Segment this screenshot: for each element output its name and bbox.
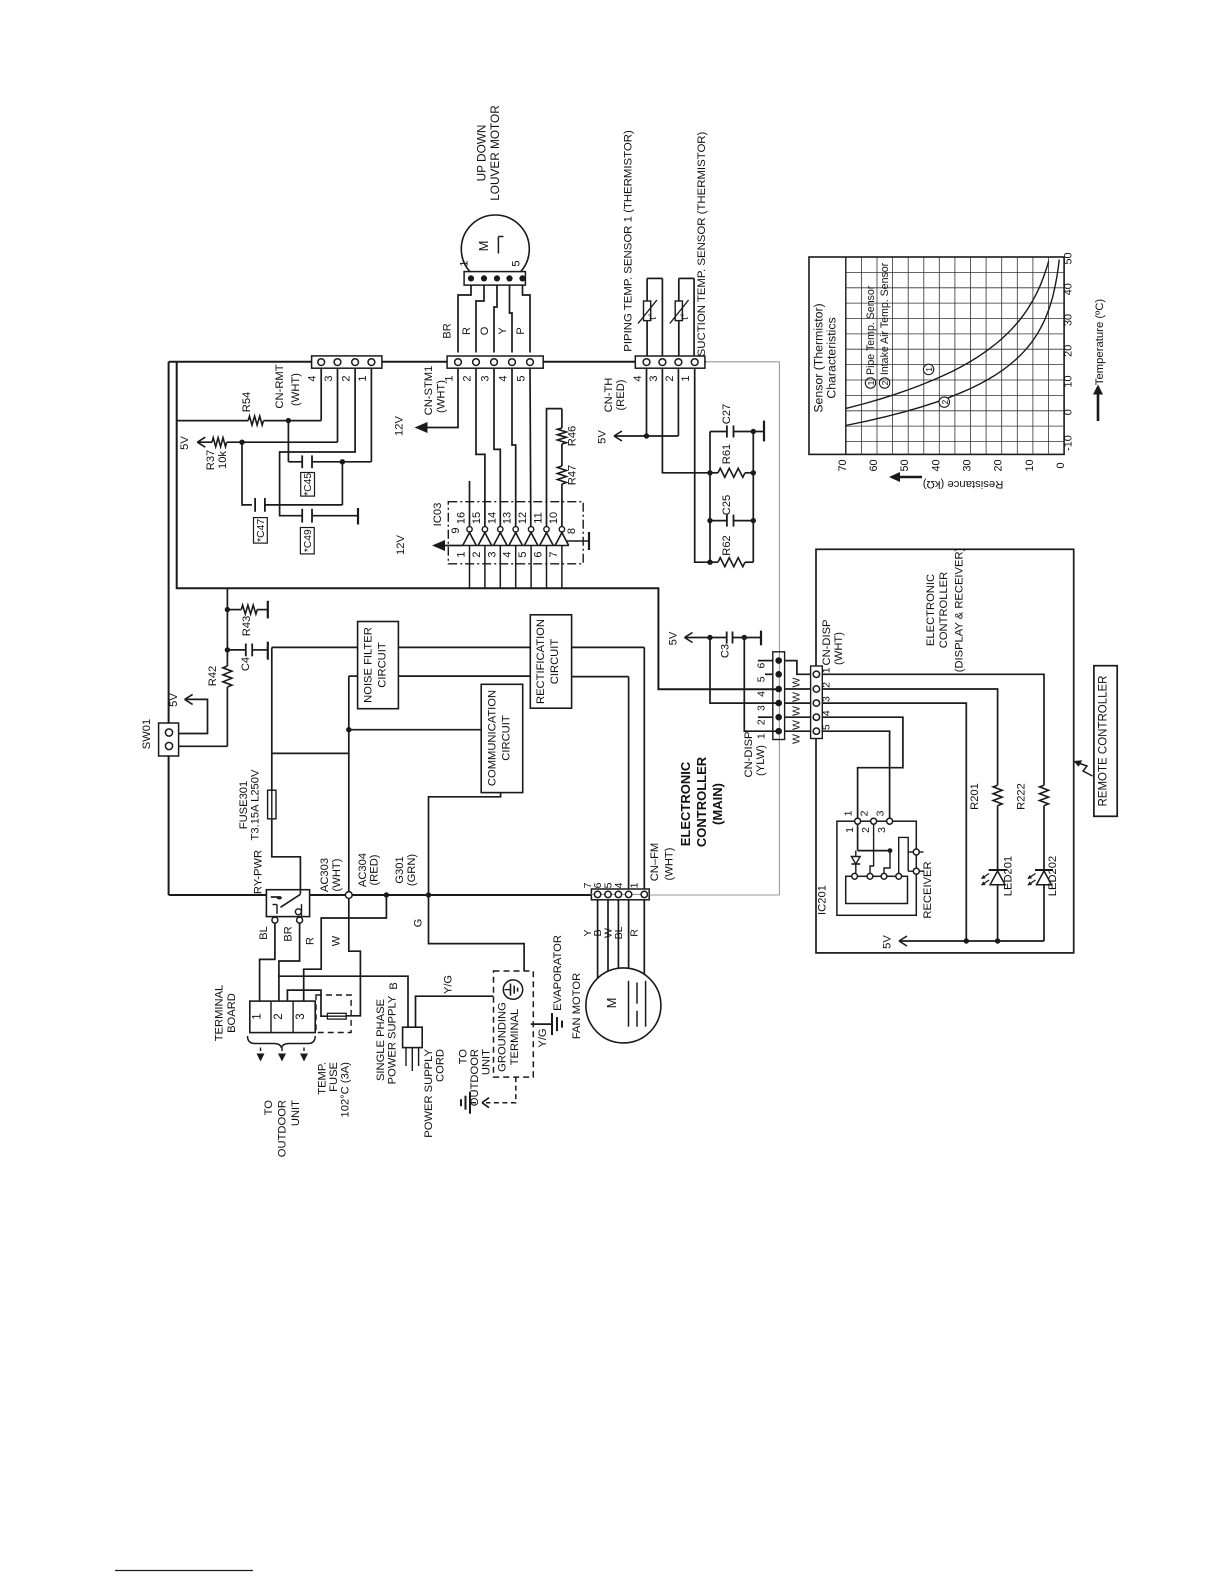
svg-text:9: 9 xyxy=(450,527,462,533)
svg-text:BL: BL xyxy=(258,926,270,939)
svg-text:Characteristics: Characteristics xyxy=(825,317,839,398)
svg-text:14: 14 xyxy=(486,512,498,524)
svg-text:CN-DISP: CN-DISP xyxy=(743,732,755,778)
svg-text:NOISE FILTER: NOISE FILTER xyxy=(363,627,375,703)
svg-text:Y/G: Y/G xyxy=(537,1028,549,1047)
svg-text:*C49: *C49 xyxy=(303,529,314,552)
svg-text:SW01: SW01 xyxy=(141,719,153,749)
svg-text:2: 2 xyxy=(860,827,872,833)
svg-text:1: 1 xyxy=(629,882,641,888)
svg-text:W: W xyxy=(791,677,803,687)
svg-text:G301: G301 xyxy=(394,856,406,883)
svg-text:(WHT): (WHT) xyxy=(331,858,343,891)
svg-text:0: 0 xyxy=(1055,462,1067,468)
svg-text:0: 0 xyxy=(1063,409,1075,415)
svg-text:FUSE301: FUSE301 xyxy=(238,781,250,830)
svg-text:5: 5 xyxy=(821,724,833,730)
svg-text:RECEIVER: RECEIVER xyxy=(922,861,934,918)
svg-text:CIRCUIT: CIRCUIT xyxy=(501,715,513,761)
svg-text:1: 1 xyxy=(459,260,471,266)
svg-text:3: 3 xyxy=(480,375,492,381)
svg-text:3: 3 xyxy=(821,696,833,702)
svg-text:UNIT: UNIT xyxy=(290,1100,302,1126)
svg-text:1: 1 xyxy=(357,375,369,381)
svg-text:R61: R61 xyxy=(721,444,733,465)
svg-text:4: 4 xyxy=(502,551,514,557)
svg-text:1: 1 xyxy=(866,380,876,385)
svg-text:5V: 5V xyxy=(668,631,680,645)
svg-text:R37: R37 xyxy=(205,450,217,471)
svg-text:(WHT): (WHT) xyxy=(290,373,302,406)
svg-text:SUCTION TEMP. SENSOR (THERMIST: SUCTION TEMP. SENSOR (THERMISTOR) xyxy=(696,131,708,356)
svg-text:CN-RMT: CN-RMT xyxy=(274,364,286,408)
svg-text:(WHT): (WHT) xyxy=(833,632,845,665)
svg-text:(RED): (RED) xyxy=(369,854,381,885)
svg-text:CONTROLLER: CONTROLLER xyxy=(938,572,950,648)
svg-text:4: 4 xyxy=(821,710,833,716)
svg-text:RY-PWR: RY-PWR xyxy=(253,850,265,894)
svg-text:2: 2 xyxy=(940,399,950,404)
svg-text:*C45: *C45 xyxy=(303,473,314,496)
svg-text:AC304: AC304 xyxy=(357,853,369,887)
svg-text:10: 10 xyxy=(1063,375,1075,387)
svg-text:2: 2 xyxy=(273,1013,285,1019)
svg-text:10: 10 xyxy=(548,512,560,524)
svg-text:R46: R46 xyxy=(567,426,579,447)
svg-text:ELECTRONIC: ELECTRONIC xyxy=(925,574,937,646)
svg-text:FAN MOTOR: FAN MOTOR xyxy=(571,973,583,1039)
svg-text:6: 6 xyxy=(533,551,545,557)
svg-text:20: 20 xyxy=(993,459,1005,471)
svg-text:5: 5 xyxy=(756,676,768,682)
svg-text:W: W xyxy=(791,720,803,730)
svg-text:CN-TH: CN-TH xyxy=(603,378,615,413)
svg-text:4: 4 xyxy=(632,375,644,381)
svg-text:W: W xyxy=(791,706,803,716)
svg-text:COMMUNICATION: COMMUNICATION xyxy=(487,690,499,786)
svg-text:30: 30 xyxy=(962,459,974,471)
svg-text:Sensor (Thermistor): Sensor (Thermistor) xyxy=(812,303,826,412)
svg-text:50: 50 xyxy=(1063,252,1075,264)
svg-text:R222: R222 xyxy=(1016,783,1028,810)
svg-text:3: 3 xyxy=(756,705,768,711)
svg-text:FUSE: FUSE xyxy=(328,1062,340,1092)
svg-text:5V: 5V xyxy=(179,436,191,450)
svg-text:R: R xyxy=(461,327,473,335)
svg-text:BOARD: BOARD xyxy=(226,993,238,1033)
svg-text:(GRN): (GRN) xyxy=(406,854,418,887)
svg-text:BR: BR xyxy=(283,926,295,941)
svg-text:(DISPLAY & RECEIVER): (DISPLAY & RECEIVER) xyxy=(954,547,966,672)
svg-text:12: 12 xyxy=(517,512,529,524)
svg-text:R54: R54 xyxy=(241,392,253,413)
svg-text:5V: 5V xyxy=(168,693,180,707)
svg-text:W: W xyxy=(791,692,803,702)
svg-text:R62: R62 xyxy=(721,535,733,556)
svg-text:CIRCUIT: CIRCUIT xyxy=(549,639,561,685)
svg-text:102°C (3A): 102°C (3A) xyxy=(340,1062,352,1118)
svg-text:LED202: LED202 xyxy=(1047,856,1059,896)
svg-text:2: 2 xyxy=(756,719,768,725)
svg-text:3: 3 xyxy=(648,375,660,381)
svg-text:PIPING TEMP. SENSOR 1 (THERMIS: PIPING TEMP. SENSOR 1 (THERMISTOR) xyxy=(623,130,635,352)
svg-text:R47: R47 xyxy=(567,465,579,486)
svg-text:TEMP.: TEMP. xyxy=(317,1062,329,1095)
svg-text:40: 40 xyxy=(1063,283,1075,295)
svg-text:R43: R43 xyxy=(241,616,253,637)
svg-text:R: R xyxy=(305,937,317,945)
svg-text:5: 5 xyxy=(516,375,528,381)
svg-text:5: 5 xyxy=(517,551,529,557)
svg-text:*C47: *C47 xyxy=(256,519,267,542)
svg-text:40: 40 xyxy=(930,459,942,471)
svg-text:Y: Y xyxy=(497,327,509,335)
svg-text:M: M xyxy=(476,241,491,252)
svg-text:12V: 12V xyxy=(395,535,407,555)
svg-text:T3.15A L250V: T3.15A L250V xyxy=(250,769,262,840)
svg-text:3: 3 xyxy=(875,810,887,816)
svg-text:O: O xyxy=(479,326,491,335)
svg-text:CORD: CORD xyxy=(435,1049,447,1082)
svg-text:M: M xyxy=(604,998,619,1009)
svg-text:1: 1 xyxy=(844,827,856,833)
svg-text:10: 10 xyxy=(1024,459,1036,471)
svg-text:Resistance (kΩ): Resistance (kΩ) xyxy=(922,478,1003,490)
svg-text:4: 4 xyxy=(613,882,625,888)
svg-text:3: 3 xyxy=(295,1013,307,1019)
svg-text:P: P xyxy=(515,327,527,334)
svg-text:C27: C27 xyxy=(721,404,733,425)
svg-text:CN–FM: CN–FM xyxy=(649,843,661,882)
svg-text:RECTIFICATION: RECTIFICATION xyxy=(535,619,547,704)
svg-text:15: 15 xyxy=(471,512,483,524)
svg-text:3: 3 xyxy=(486,551,498,557)
svg-text:CIRCUIT: CIRCUIT xyxy=(377,642,389,688)
svg-text:IC03: IC03 xyxy=(432,503,444,527)
svg-text:3: 3 xyxy=(876,827,888,833)
svg-text:4: 4 xyxy=(756,691,768,697)
svg-text:1: 1 xyxy=(821,667,833,673)
svg-text:C25: C25 xyxy=(721,495,733,516)
svg-text:12V: 12V xyxy=(394,416,406,436)
svg-text:G: G xyxy=(413,919,425,928)
svg-text:2: 2 xyxy=(462,375,474,381)
svg-text:Pipe Temp. Sensor: Pipe Temp. Sensor xyxy=(865,285,877,375)
svg-text:8: 8 xyxy=(566,528,578,534)
svg-text:5V: 5V xyxy=(597,430,609,444)
svg-text:1: 1 xyxy=(680,375,692,381)
svg-text:11: 11 xyxy=(533,512,545,523)
svg-text:30: 30 xyxy=(1063,314,1075,326)
svg-text:TO: TO xyxy=(458,1049,470,1065)
svg-text:6: 6 xyxy=(756,663,768,669)
svg-text:60: 60 xyxy=(868,459,880,471)
svg-text:IC201: IC201 xyxy=(817,885,829,915)
svg-text:CONTROLLER: CONTROLLER xyxy=(694,756,709,847)
svg-text:1: 1 xyxy=(843,810,855,816)
svg-text:16: 16 xyxy=(456,512,468,524)
svg-text:4: 4 xyxy=(307,375,319,381)
svg-text:2: 2 xyxy=(664,375,676,381)
svg-text:TO: TO xyxy=(263,1100,275,1116)
svg-text:TERMINAL: TERMINAL xyxy=(214,985,226,1042)
svg-text:5V: 5V xyxy=(882,935,894,949)
svg-text:Temperature (ºC): Temperature (ºC) xyxy=(1094,299,1106,386)
svg-text:t°: t° xyxy=(680,313,691,320)
svg-text:1: 1 xyxy=(252,1013,264,1019)
svg-text:5: 5 xyxy=(511,260,523,266)
svg-text:UNIT: UNIT xyxy=(481,1049,493,1075)
svg-text:LOUVER MOTOR: LOUVER MOTOR xyxy=(488,105,502,200)
svg-text:UP DOWN: UP DOWN xyxy=(475,125,489,182)
svg-text:W: W xyxy=(331,935,343,946)
svg-text:1: 1 xyxy=(924,367,934,372)
svg-text:50: 50 xyxy=(899,459,911,471)
svg-text:BR: BR xyxy=(442,323,454,338)
svg-text:(RED): (RED) xyxy=(615,379,627,410)
svg-text:POWER SUPPLY: POWER SUPPLY xyxy=(387,995,399,1084)
svg-text:AC303: AC303 xyxy=(319,858,331,892)
svg-text:3: 3 xyxy=(323,375,335,381)
svg-text:ELECTRONIC: ELECTRONIC xyxy=(678,761,693,846)
svg-text:1: 1 xyxy=(456,551,468,557)
svg-text:TERMINAL: TERMINAL xyxy=(509,1009,521,1066)
svg-text:(WHT): (WHT) xyxy=(436,380,448,413)
svg-text:20: 20 xyxy=(1063,345,1075,357)
svg-text:R201: R201 xyxy=(969,783,981,810)
svg-text:Intake Air Temp. Sensor: Intake Air Temp. Sensor xyxy=(879,262,891,375)
svg-text:t°: t° xyxy=(648,313,659,320)
svg-text:POWER SUPPLY: POWER SUPPLY xyxy=(423,1048,435,1137)
svg-text:(YLW): (YLW) xyxy=(755,745,767,776)
svg-text:LED201: LED201 xyxy=(1003,856,1015,896)
svg-text:GROUNDING: GROUNDING xyxy=(497,1002,509,1072)
svg-text:W: W xyxy=(791,734,803,744)
svg-text:Y/G: Y/G xyxy=(443,975,455,994)
svg-text:(WHT): (WHT) xyxy=(664,847,676,880)
svg-text:2: 2 xyxy=(471,551,483,557)
svg-text:OUTDOOR: OUTDOOR xyxy=(277,1100,289,1157)
svg-text:2: 2 xyxy=(880,380,890,385)
svg-text:2: 2 xyxy=(821,682,833,688)
svg-text:CN-STM1: CN-STM1 xyxy=(423,366,435,416)
svg-text:(MAIN): (MAIN) xyxy=(710,783,725,825)
svg-text:SINGLE PHASE: SINGLE PHASE xyxy=(375,999,387,1081)
svg-text:C4: C4 xyxy=(240,657,252,671)
svg-text:2: 2 xyxy=(341,375,353,381)
svg-text:1: 1 xyxy=(756,733,768,739)
svg-text:10k: 10k xyxy=(217,451,229,469)
svg-text:7: 7 xyxy=(548,551,560,557)
svg-text:-10: -10 xyxy=(1063,435,1075,451)
svg-text:C3: C3 xyxy=(720,644,732,658)
svg-text:13: 13 xyxy=(502,512,514,524)
svg-text:BL: BL xyxy=(613,926,625,939)
svg-text:EVAPORATOR: EVAPORATOR xyxy=(552,935,564,1011)
svg-text:70: 70 xyxy=(837,459,849,471)
svg-text:R: R xyxy=(629,929,641,937)
svg-text:2: 2 xyxy=(859,810,871,816)
svg-text:B: B xyxy=(388,982,400,989)
svg-text:REMOTE CONTROLLER: REMOTE CONTROLLER xyxy=(1098,676,1110,807)
svg-text:CN-DISP: CN-DISP xyxy=(821,620,833,666)
svg-text:R42: R42 xyxy=(207,666,219,687)
svg-text:4: 4 xyxy=(498,375,510,381)
